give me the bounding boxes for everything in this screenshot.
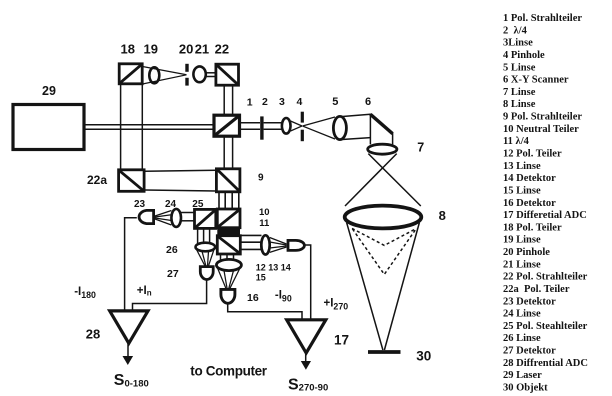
wire fan 4 to lens 5 [303,117,336,126]
svg-text:6 X-Y Scanner: 6 X-Y Scanner [503,75,569,86]
svg-text:22a Pol. Teiler: 22a Pol. Teiler [503,284,570,295]
svg-text:18: 18 [121,42,135,57]
svg-text:10: 10 [259,207,270,218]
laser 29 [13,105,84,150]
lens 21 [193,66,205,82]
wire 18 to 22a right [141,84,143,170]
svg-text:7: 7 [417,141,424,155]
lens 3 [282,118,291,134]
lens 8 [345,206,422,229]
lens 13 [261,235,269,254]
wire cube 1 to cube 9 [223,137,225,169]
wire fan 19 to pinhole 20 [143,67,187,75]
wire 5 to scanner 6 [341,114,370,116]
detector 23 [139,210,154,223]
lens 19 [149,67,159,83]
wire lens 24 to cube 25 [181,212,195,214]
svg-text:1: 1 [247,96,253,108]
svg-text:28: 28 [86,326,100,341]
wire 21 to 22 [206,72,216,74]
svg-text:24: 24 [165,199,177,210]
wire fan 3 to pinhole 4 [291,121,303,126]
svg-text:17 Differetial ADC: 17 Differetial ADC [503,210,587,221]
pol. teiler cube 22a [119,170,145,192]
svg-text:7 Linse: 7 Linse [503,87,536,98]
wire 18 to 22a left [120,84,122,170]
svg-text:2: 2 [262,96,268,108]
lambda/4 plate 11 (black) [217,228,240,236]
wire det 16 to adc 17 [228,304,302,320]
svg-text:4: 4 [297,96,303,108]
lens 26 [196,243,216,252]
svg-text:25: 25 [192,199,204,210]
svg-text:29: 29 [42,84,56,98]
svg-text:21: 21 [195,42,209,57]
svg-text:5 Linse: 5 Linse [503,62,536,73]
svg-text:15 Linse: 15 Linse [503,185,541,196]
wire 22 to cube 1 right [232,85,234,115]
wire 22a to 9 top [145,170,217,171]
svg-text:26 Linse: 26 Linse [503,333,541,344]
svg-text:to Computer: to Computer [190,363,267,378]
wire adc 28 output arrow [127,343,129,356]
svg-text:20 Pinhole: 20 Pinhole [503,247,550,258]
wire fan 26 to det 27 [197,250,206,267]
svg-text:23: 23 [134,199,146,210]
svg-text:28 Diffrential ADC: 28 Diffrential ADC [503,358,588,369]
wire cube 12 to lens 15 [220,254,222,260]
svg-text:24 Linse: 24 Linse [503,309,541,320]
wire 9 to 10 verticals [218,192,220,209]
svg-text:1 Pol. Strahlteiler: 1 Pol. Strahlteiler [503,13,582,24]
svg-text:26: 26 [166,244,178,256]
lens 5 [333,116,346,139]
detector 27 [200,267,213,280]
svg-text:3: 3 [279,96,285,108]
svg-text:8: 8 [439,208,446,223]
wire 22a to 9 bottom [145,190,217,191]
wire cube 1 to plate 2 [240,122,261,124]
svg-text:12 13 14: 12 13 14 [256,262,291,272]
wire det 14 to adc 17 [305,245,311,320]
differential adc 28 [110,311,148,343]
svg-text:5: 5 [332,96,338,108]
svg-text:17: 17 [334,333,349,348]
svg-text:3Linse: 3Linse [503,38,533,49]
pol. strahlteiler cube 22 [216,64,239,85]
pol. teiler cube 18 [119,64,142,84]
differential adc 17 [287,320,326,353]
wire det 23 to adc 28 [125,218,137,311]
svg-text:27: 27 [167,268,179,280]
detector 16 [221,289,235,303]
wire 25 to lens 26 [197,229,199,244]
legend list [503,13,588,394]
svg-text:21 Linse: 21 Linse [503,259,541,270]
svg-text:29 Laser: 29 Laser [503,370,542,381]
detector 14 [288,240,304,250]
wire det 27 to adc 28 [133,280,207,311]
wire fan 15 to det 16 [218,268,227,289]
wire fan 13 to det 14 [270,238,287,245]
pol. teiler cube 12 [217,236,240,254]
svg-text:18 Pol. Teiler: 18 Pol. Teiler [503,222,562,233]
svg-text:10 Neutral Teiler: 10 Neutral Teiler [503,124,579,135]
svg-text:30: 30 [416,349,431,364]
svg-text:13 Linse: 13 Linse [503,161,541,172]
svg-text:4 Pinhole: 4 Pinhole [503,50,545,61]
svg-text:2 λ/4: 2 λ/4 [503,25,528,36]
svg-text:30 Objekt: 30 Objekt [503,383,548,394]
wire laser beam lower [84,128,214,130]
dashed focus V short [352,228,417,245]
svg-text:14 Detektor: 14 Detektor [503,173,556,184]
wire crossing 7 to 8 [368,154,421,206]
wire adc 17 output arrow [305,353,307,362]
wire laser beam to cube 1 [84,124,214,126]
svg-text:9: 9 [258,173,264,184]
x-y scanner 6 [370,114,392,145]
pol. strahlteiler cube 9 [216,169,240,192]
svg-text:16: 16 [247,292,259,304]
wire cone 8 to object 30 [347,223,383,351]
svg-text:22 Pol. Strahlteiler: 22 Pol. Strahlteiler [503,272,588,283]
pol. strahlteiler cube 1 (central) [214,115,240,136]
svg-text:20: 20 [179,42,193,57]
svg-text:16 Detektor: 16 Detektor [503,198,556,209]
pol. strahlteiler cube 25 [195,209,216,228]
svg-text:19 Linse: 19 Linse [503,235,541,246]
wire fan 24 to det 23 [155,211,171,217]
lens 15 [216,259,241,270]
svg-text:9 Pol. Strahlteiler: 9 Pol. Strahlteiler [503,112,582,123]
wire 2 to lens 3 [264,122,282,124]
svg-text:22: 22 [215,42,229,57]
wire cube 12 to lens 13 (3 lines) [241,234,262,236]
object 30 [368,350,401,354]
svg-text:15: 15 [256,273,266,283]
lambda/4 plate 2 [260,116,263,139]
svg-text:8 Linse: 8 Linse [503,99,536,110]
svg-text:11: 11 [259,218,270,229]
svg-text:27 Detektor: 27 Detektor [503,346,556,357]
wire 22 to cube 1 left [223,85,225,115]
dashed focus V long [353,229,417,274]
pinhole 20 [185,64,188,72]
svg-text:23 Detektor: 23 Detektor [503,296,556,307]
svg-text:12 Pol. Teiler: 12 Pol. Teiler [503,149,562,160]
neutral teiler cube 10 [217,209,240,228]
svg-text:22a: 22a [87,173,107,187]
svg-text:25 Pol. Steahlteiler: 25 Pol. Steahlteiler [503,321,588,332]
lens 24 [171,209,181,227]
lens 7 [368,144,397,154]
svg-text:19: 19 [144,42,158,57]
svg-text:11 λ/4: 11 λ/4 [503,136,530,147]
pinhole 4 [301,112,304,123]
svg-text:6: 6 [365,96,371,108]
